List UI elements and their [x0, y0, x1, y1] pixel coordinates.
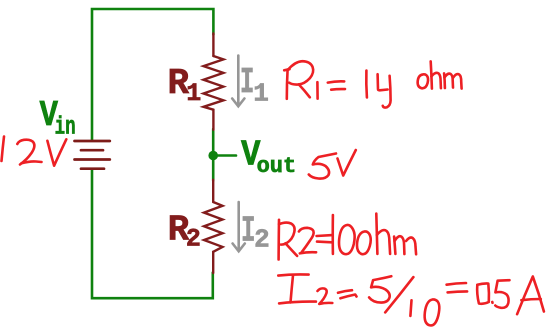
annotation: handwritten R1 = 14 ohm — [284, 61, 461, 107]
label I2 — [241, 211, 270, 255]
wire: stub from node to Vout label — [213, 154, 236, 157]
annotation: handwritten 12V — [2, 137, 67, 166]
svg-text:2: 2 — [186, 224, 201, 253]
battery V1: multicell battery symbol — [75, 141, 110, 169]
current arrow I1 — [232, 56, 244, 107]
svg-text:in: in — [55, 113, 76, 142]
label Vin — [40, 95, 76, 142]
svg-text:1: 1 — [253, 79, 269, 109]
wire: bottom loop from battery - down across to R2 bottom — [92, 170, 213, 299]
label R1 — [168, 63, 202, 108]
current arrow I2 — [233, 202, 245, 251]
node A: output node junction dot — [208, 151, 218, 161]
label R2 — [168, 209, 201, 253]
svg-text:1: 1 — [186, 79, 201, 108]
label I1 — [240, 62, 269, 109]
annotation: handwritten 5V at Vout — [309, 150, 356, 179]
svg-text:2: 2 — [254, 225, 270, 255]
svg-text:out: out — [257, 154, 297, 179]
label Vout — [241, 135, 296, 180]
resistor R2: zigzag body with leads — [204, 180, 223, 273]
resistor R1: zigzag body with leads — [204, 34, 224, 130]
wire: middle segment between R1 and R2 through node — [212, 129, 215, 181]
wire: top loop from battery + up across to R1 top — [92, 9, 213, 140]
annotation: handwritten I2 = 5/10 = 0.5 A — [278, 274, 544, 325]
annotation: handwritten R2=10Ohm — [279, 214, 417, 260]
